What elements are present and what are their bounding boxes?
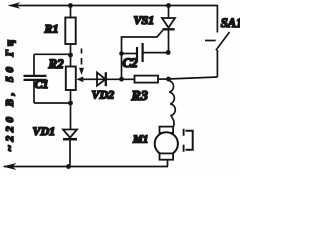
node junction gate / C2 left xyxy=(119,51,124,56)
switch SA1 xyxy=(205,32,230,77)
svg-text:R2: R2 xyxy=(48,56,65,71)
resistor R1 xyxy=(65,6,75,56)
inductor winding of M1 xyxy=(169,81,176,127)
node junction top rail / VS1 xyxy=(166,3,171,8)
svg-text:VS1: VS1 xyxy=(134,13,155,27)
thyristor VS1 xyxy=(162,6,175,53)
node junction R3 / VS1 / motor branch xyxy=(166,77,171,82)
mains terminal arrow top left xyxy=(8,2,21,9)
wire bottom rail xyxy=(4,166,168,168)
node junction R2 / C1 / VD1 xyxy=(68,101,73,106)
node junction VD2 / C2 branch / R3 xyxy=(119,77,124,82)
node junction VD1 / bottom rail xyxy=(66,164,71,169)
motor M1 xyxy=(155,127,178,167)
resistor R2 (rheostat) xyxy=(66,55,76,103)
diode VD2 xyxy=(97,72,135,86)
wire upper link node to C1 branch xyxy=(34,53,71,55)
wire gate of VS1 xyxy=(122,30,163,79)
capacitor C2 xyxy=(122,43,169,62)
svg-text:R1: R1 xyxy=(44,22,59,36)
svg-text:R3: R3 xyxy=(131,89,148,104)
svg-text:~220 В, 50 Гц: ~220 В, 50 Гц xyxy=(4,36,16,152)
node junction top rail / R1 xyxy=(68,3,73,8)
wire top rail xyxy=(13,6,217,33)
svg-text:C1: C1 xyxy=(35,77,49,91)
node junction R1 / R2 / C1 xyxy=(68,53,73,58)
svg-text:C2: C2 xyxy=(123,55,139,70)
svg-text:VD1: VD1 xyxy=(33,124,56,138)
wiper arrow of R2 xyxy=(76,77,97,83)
svg-text:VD2: VD2 xyxy=(92,88,115,102)
svg-text:SA1: SA1 xyxy=(221,16,240,30)
adjustment dashed arrow of R2 xyxy=(79,49,84,76)
resistor R3 xyxy=(135,76,172,83)
capacitor C1 xyxy=(24,54,47,103)
svg-text:M1: M1 xyxy=(132,134,148,146)
diode VD1 xyxy=(63,103,77,167)
wire right rail to motor node xyxy=(171,77,218,79)
mains terminal arrow bottom left xyxy=(3,163,17,170)
brush bracket right of M1 xyxy=(184,129,193,152)
wire lower link C1 / R2 / VD1 xyxy=(34,102,71,104)
node junction C2 right / VS1 cathode xyxy=(166,50,171,55)
